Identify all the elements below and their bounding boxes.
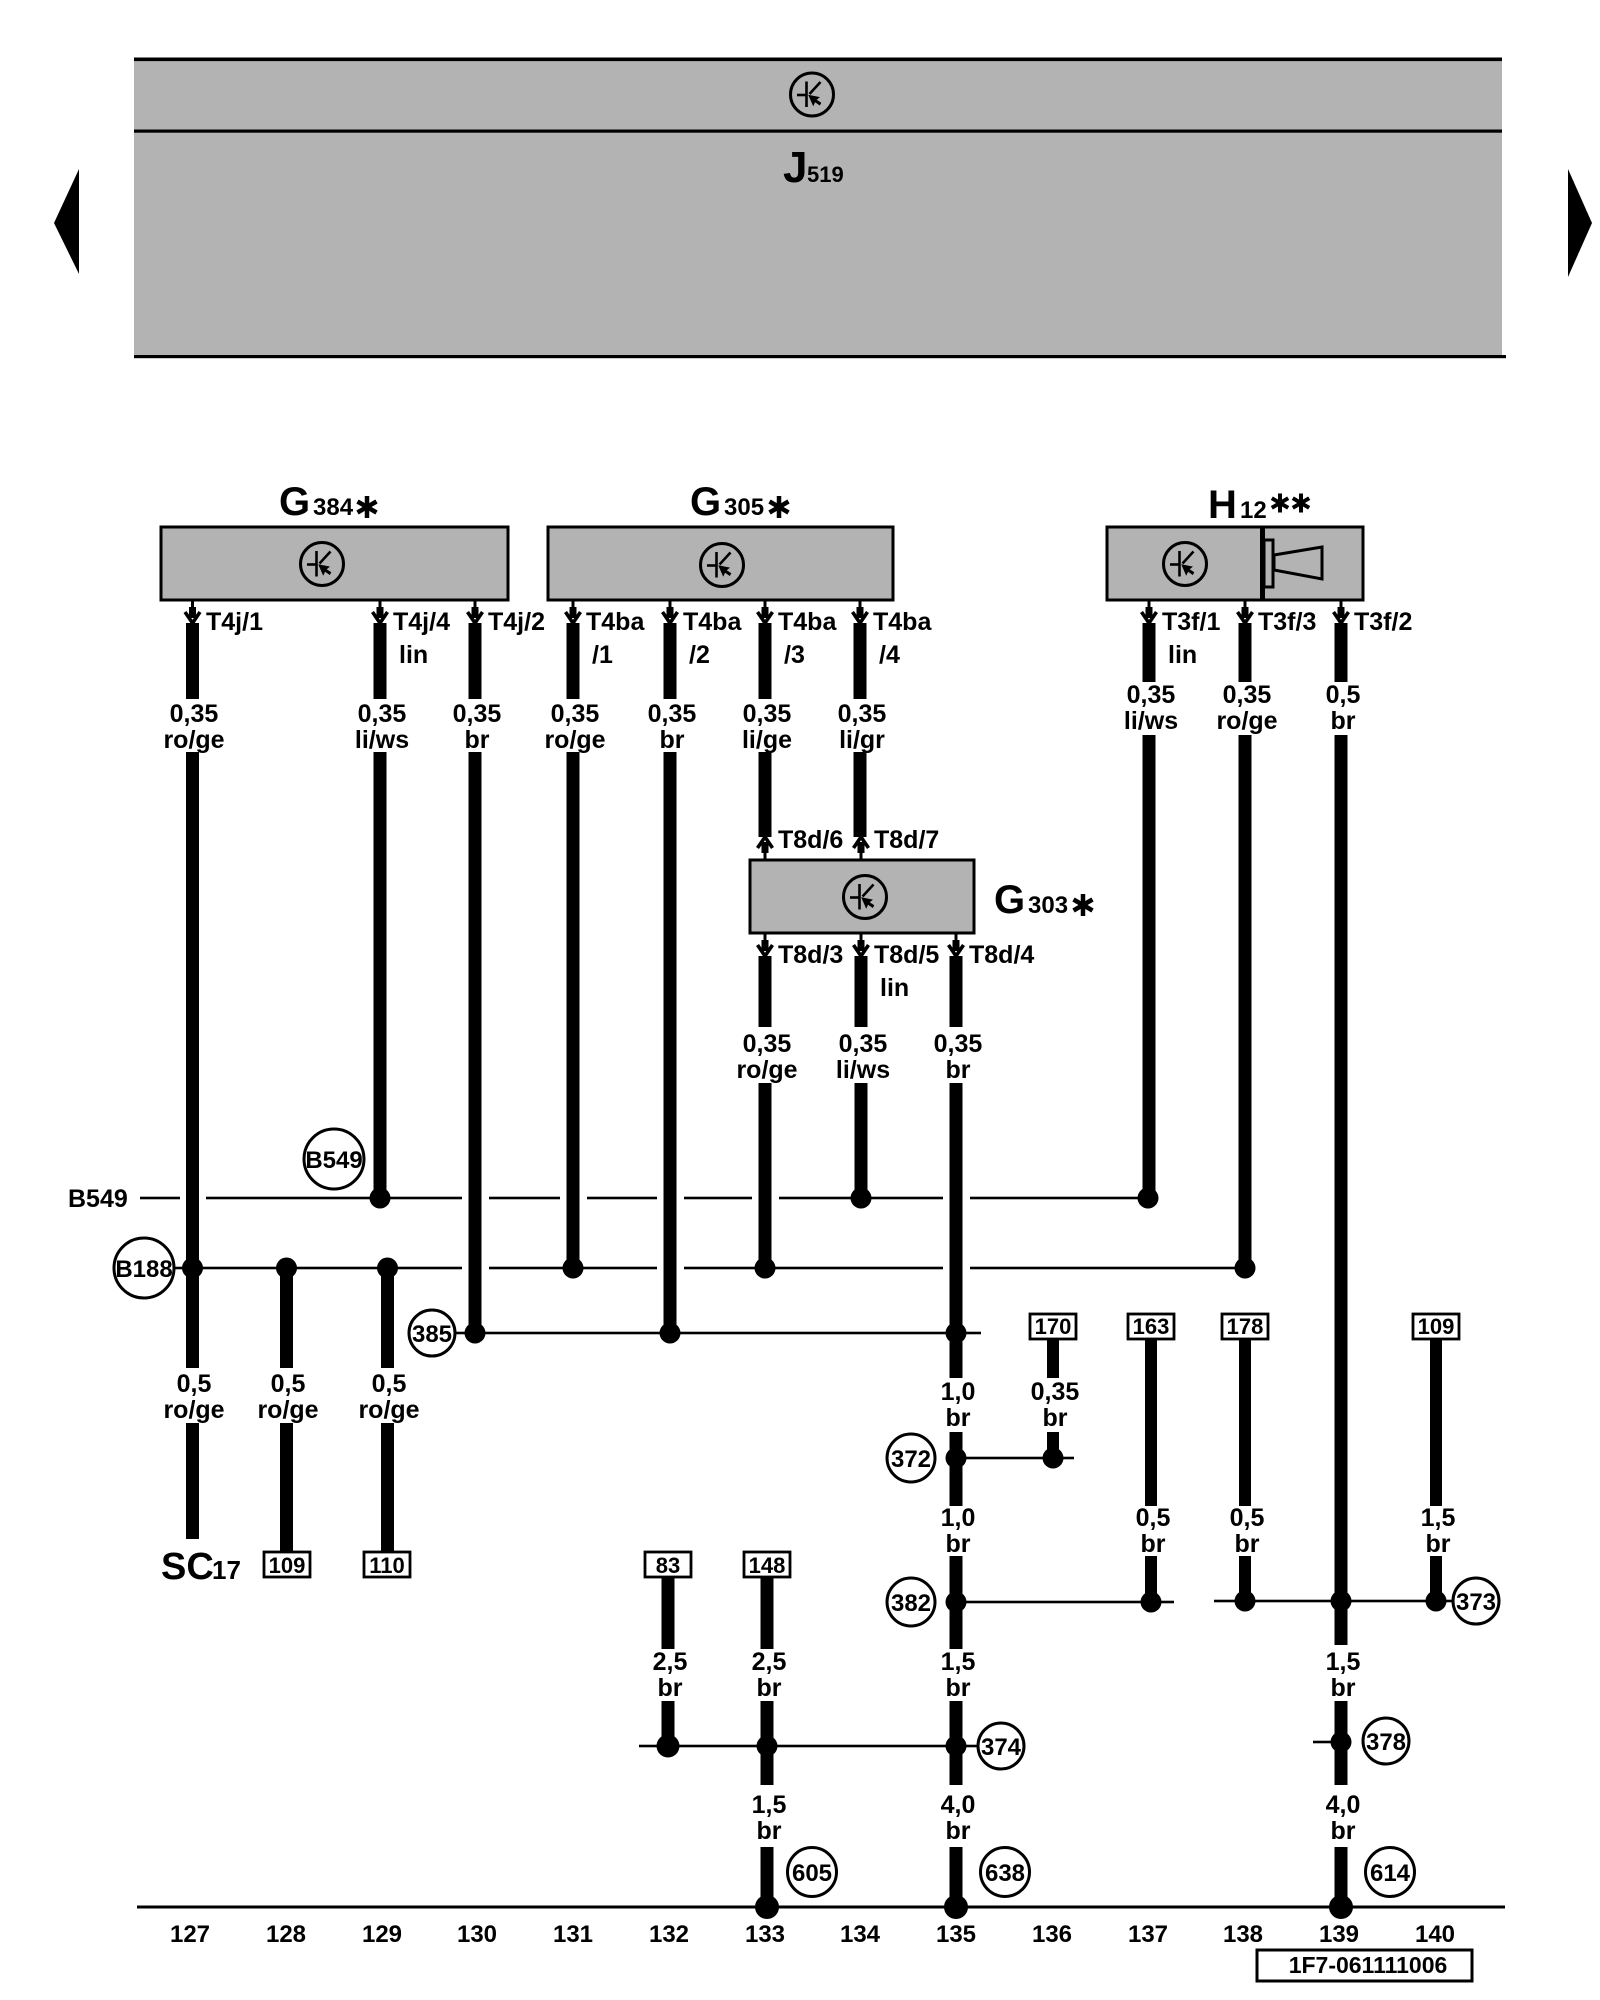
wire label 0,35 ro/ge @131 bbox=[544, 700, 605, 754]
pin G303 T8d/4 bbox=[949, 933, 1035, 969]
wire label 0,35 ro/ge @127 bbox=[163, 700, 224, 754]
terminal box 83 bbox=[645, 1552, 691, 1578]
junction B188/T3f3 bbox=[1235, 1258, 1256, 1279]
wire T4j/1 ro/ge (track 127) bbox=[186, 623, 199, 1539]
svg-text:519: 519 bbox=[807, 162, 844, 187]
svg-text:li/gr: li/gr bbox=[839, 726, 885, 754]
svg-text:br: br bbox=[465, 726, 490, 754]
svg-text:br: br bbox=[1331, 1674, 1356, 1702]
svg-text:2,5: 2,5 bbox=[653, 1648, 688, 1676]
wire label 0,5 br @163 bbox=[1136, 1504, 1171, 1558]
svg-text:br: br bbox=[1043, 1404, 1068, 1432]
junction B188/131 bbox=[563, 1258, 584, 1279]
svg-text:ro/ge: ro/ge bbox=[358, 1396, 419, 1424]
svg-text:0,5: 0,5 bbox=[1136, 1504, 1171, 1532]
svg-text:136: 136 bbox=[1032, 1921, 1072, 1948]
svg-text:4,0: 4,0 bbox=[1326, 1791, 1361, 1819]
svg-text:0,35: 0,35 bbox=[648, 700, 697, 728]
svg-text:T4ba: T4ba bbox=[778, 608, 837, 636]
terminal box 109 left bbox=[264, 1552, 310, 1578]
svg-text:373: 373 bbox=[1456, 1589, 1496, 1616]
svg-text:br: br bbox=[1331, 1817, 1356, 1845]
component G303 box bbox=[750, 860, 974, 933]
svg-text:0,35: 0,35 bbox=[743, 1030, 792, 1058]
pin G303 T8d/5 bbox=[854, 933, 940, 1002]
svg-text:ro/ge: ro/ge bbox=[257, 1396, 318, 1424]
svg-text:br: br bbox=[946, 1530, 971, 1558]
svg-text:0,35: 0,35 bbox=[838, 700, 887, 728]
junction 374/135 bbox=[946, 1736, 967, 1757]
junction 374/148 bbox=[757, 1736, 778, 1757]
junction 385/135 bbox=[946, 1323, 967, 1344]
svg-text:128: 128 bbox=[266, 1921, 306, 1948]
ground terminal SC17 bbox=[161, 1546, 241, 1588]
svg-text:140: 140 bbox=[1415, 1921, 1455, 1948]
terminal box 170 bbox=[1030, 1314, 1076, 1339]
node 372 bbox=[887, 1434, 935, 1482]
svg-text:T8d/4: T8d/4 bbox=[969, 941, 1034, 969]
svg-text:0,35: 0,35 bbox=[1127, 681, 1176, 709]
wire T8d/5 li/ws bbox=[855, 956, 868, 1198]
junction 382/163 bbox=[1141, 1592, 1162, 1613]
wire label 1,5 br @139 bbox=[1326, 1648, 1361, 1702]
svg-text:0,35: 0,35 bbox=[170, 700, 219, 728]
svg-text:638: 638 bbox=[985, 1860, 1025, 1887]
pin G303 T8d/7 bbox=[854, 826, 940, 860]
wire T8d/3 ro/ge bbox=[759, 956, 772, 1268]
node 382 bbox=[887, 1578, 935, 1626]
svg-text:lin: lin bbox=[880, 974, 909, 1002]
wire label 0,35 br @130 bbox=[453, 700, 502, 754]
svg-text:109: 109 bbox=[1418, 1314, 1455, 1339]
junction 372/135 bbox=[946, 1448, 967, 1469]
svg-text:127: 127 bbox=[170, 1921, 210, 1948]
svg-text:li/ws: li/ws bbox=[836, 1056, 890, 1084]
svg-text:ro/ge: ro/ge bbox=[544, 726, 605, 754]
pin H12 T3f/1 bbox=[1142, 600, 1221, 669]
svg-text:132: 132 bbox=[649, 1921, 689, 1948]
junction B549/T4j4 bbox=[370, 1188, 391, 1209]
junction 374/83 bbox=[657, 1735, 680, 1758]
node B188 bbox=[114, 1238, 174, 1298]
svg-text:0,5: 0,5 bbox=[177, 1370, 212, 1398]
svg-text:T4ba: T4ba bbox=[873, 608, 932, 636]
wire label 0,35 li/ge @133 bbox=[742, 700, 792, 754]
junction 385/132 bbox=[660, 1323, 681, 1344]
svg-text:li/ge: li/ge bbox=[742, 726, 792, 754]
wire connection 382 bbox=[950, 1601, 1174, 1604]
pin G305 T4ba/2 bbox=[663, 600, 743, 669]
svg-text:H: H bbox=[1208, 483, 1237, 527]
wire label 4,0 br @139 bbox=[1326, 1791, 1361, 1845]
label J519 bbox=[783, 143, 844, 192]
svg-text:T3f/1: T3f/1 bbox=[1162, 608, 1220, 636]
pin H12 T3f/3 bbox=[1238, 600, 1317, 636]
wire connection 374 bbox=[639, 1745, 978, 1748]
component G305 box bbox=[548, 527, 893, 600]
svg-text:0,35: 0,35 bbox=[1223, 681, 1272, 709]
wire label 1,0 br @135 lower bbox=[941, 1504, 976, 1558]
wire label 2,5 br @83 bbox=[653, 1648, 688, 1702]
node 378 bbox=[1363, 1718, 1409, 1764]
label G305* bbox=[690, 480, 789, 524]
wire T4ba/4 li/gr (track 134 top) bbox=[854, 623, 867, 837]
wire T4ba/2 br (track 132 top) bbox=[664, 623, 677, 1333]
wire terminal 83 br bbox=[662, 1577, 675, 1746]
svg-text:0,5: 0,5 bbox=[372, 1370, 407, 1398]
H12 K symbol bbox=[1164, 543, 1207, 586]
wire label 0,5 ro/ge @128 bbox=[257, 1370, 318, 1424]
wire connection 378 bbox=[1313, 1741, 1341, 1744]
svg-text:109: 109 bbox=[269, 1553, 306, 1578]
svg-text:0,5: 0,5 bbox=[271, 1370, 306, 1398]
svg-text:ro/ge: ro/ge bbox=[163, 1396, 224, 1424]
junction 373/140 bbox=[1426, 1591, 1447, 1612]
right continuation arrow bbox=[1568, 169, 1592, 277]
svg-text:br: br bbox=[1235, 1530, 1260, 1558]
track numbers 127-140 bbox=[170, 1921, 1455, 1948]
node B549 bbox=[304, 1129, 364, 1189]
G384 K symbol bbox=[301, 543, 344, 586]
svg-text:372: 372 bbox=[891, 1446, 931, 1473]
terminal box 109 right bbox=[1413, 1314, 1459, 1339]
wire connection 372 bbox=[950, 1457, 1074, 1460]
svg-text:T4ba: T4ba bbox=[586, 608, 645, 636]
svg-text:G: G bbox=[690, 480, 721, 524]
svg-text:T4j/2: T4j/2 bbox=[488, 608, 545, 636]
wire T3f/3 ro/ge (track 138) bbox=[1239, 623, 1252, 1268]
svg-text:1,5: 1,5 bbox=[1326, 1648, 1361, 1676]
node 605 bbox=[788, 1848, 837, 1897]
svg-text:1,0: 1,0 bbox=[941, 1378, 976, 1406]
terminal box 178 bbox=[1222, 1314, 1268, 1339]
control unit J519 box bbox=[134, 58, 1506, 359]
svg-text:ro/ge: ro/ge bbox=[736, 1056, 797, 1084]
node 374 bbox=[978, 1723, 1024, 1769]
svg-text:T3f/3: T3f/3 bbox=[1258, 608, 1316, 636]
svg-text:0,35: 0,35 bbox=[551, 700, 600, 728]
svg-text:0,35: 0,35 bbox=[743, 700, 792, 728]
svg-text:12: 12 bbox=[1240, 497, 1267, 524]
G305 K symbol bbox=[701, 544, 744, 587]
H12 speaker symbol bbox=[1264, 540, 1322, 587]
pin G384 T4j/2 bbox=[468, 600, 545, 636]
junction B188/129 bbox=[377, 1258, 398, 1279]
svg-text:0,35: 0,35 bbox=[934, 1030, 983, 1058]
svg-text:17: 17 bbox=[212, 1555, 241, 1585]
svg-text:/3: /3 bbox=[784, 641, 805, 669]
junction B188/128 bbox=[276, 1258, 297, 1279]
junction B549/T8d5 bbox=[851, 1188, 872, 1209]
svg-text:130: 130 bbox=[457, 1921, 497, 1948]
wire label 1,5 br @133 bbox=[752, 1791, 787, 1845]
svg-text:lin: lin bbox=[1168, 641, 1197, 669]
wire label 0,35 br @T8d4 bbox=[934, 1030, 983, 1084]
svg-text:br: br bbox=[1141, 1530, 1166, 1558]
wire B188 to terminal 109 (track 128) bbox=[280, 1268, 293, 1553]
wire label 2,5 br @148 bbox=[752, 1648, 787, 1702]
wire terminal 170 br bbox=[1047, 1338, 1059, 1458]
terminal box 148 bbox=[744, 1552, 790, 1578]
junction rail/139 bbox=[1329, 1895, 1353, 1919]
wire terminal 163 br bbox=[1145, 1338, 1157, 1602]
svg-text:J: J bbox=[783, 143, 807, 192]
svg-text:178: 178 bbox=[1227, 1314, 1264, 1339]
left continuation arrow bbox=[54, 169, 79, 274]
svg-text:B549: B549 bbox=[305, 1147, 362, 1174]
svg-text:129: 129 bbox=[362, 1921, 402, 1948]
svg-text:4,0: 4,0 bbox=[941, 1791, 976, 1819]
svg-text:T3f/2: T3f/2 bbox=[1354, 608, 1412, 636]
wire label 1,0 br @135 upper bbox=[941, 1378, 976, 1432]
terminal box 163 bbox=[1128, 1314, 1174, 1339]
junction 372/170 bbox=[1043, 1448, 1064, 1469]
svg-text:G: G bbox=[279, 480, 310, 524]
junction B188/T8d3 bbox=[755, 1258, 776, 1279]
wire label 0,5 ro/ge @129 bbox=[358, 1370, 419, 1424]
svg-text:1,5: 1,5 bbox=[752, 1791, 787, 1819]
wire T8d/4 br (track 135) bbox=[950, 956, 963, 1907]
wire label 0,35 br @170 bbox=[1031, 1378, 1080, 1432]
junction 382/135 bbox=[946, 1592, 967, 1613]
wire T4ba/3 li/ge (track 133 top) bbox=[759, 623, 772, 837]
wire label 0,35 ro/ge @138 bbox=[1216, 681, 1277, 735]
svg-text:br: br bbox=[946, 1817, 971, 1845]
svg-text:303: 303 bbox=[1028, 892, 1068, 919]
wire connection B188 bbox=[174, 1267, 1245, 1270]
svg-text:305: 305 bbox=[724, 494, 764, 521]
svg-text:SC: SC bbox=[161, 1546, 214, 1588]
svg-text:133: 133 bbox=[745, 1921, 785, 1948]
svg-text:br: br bbox=[660, 726, 685, 754]
wire label 0,35 li/ws @129 bbox=[355, 700, 409, 754]
terminal box 110 bbox=[364, 1552, 410, 1578]
wire label 0,35 li/gr @134 bbox=[838, 700, 887, 754]
svg-text:139: 139 bbox=[1319, 1921, 1359, 1948]
label H12** bbox=[1208, 483, 1309, 527]
svg-text:lin: lin bbox=[399, 641, 428, 669]
node 373 bbox=[1453, 1578, 1499, 1624]
svg-text:0,35: 0,35 bbox=[839, 1030, 888, 1058]
svg-text:135: 135 bbox=[936, 1921, 976, 1948]
svg-text:B549: B549 bbox=[68, 1185, 128, 1213]
junction B549/T3f1 bbox=[1138, 1188, 1159, 1209]
svg-text:385: 385 bbox=[412, 1321, 452, 1348]
svg-text:1,0: 1,0 bbox=[941, 1504, 976, 1532]
node 385 bbox=[409, 1310, 455, 1356]
junction rail/133 bbox=[755, 1895, 779, 1919]
svg-text:br: br bbox=[946, 1056, 971, 1084]
wire label 0,5 br @139 bbox=[1326, 681, 1361, 735]
earth rail bbox=[137, 1906, 1505, 1909]
svg-text:/4: /4 bbox=[879, 641, 900, 669]
wire T3f/1 li/ws (track 137) bbox=[1143, 623, 1156, 1198]
wire label 0,5 ro/ge @127 bbox=[163, 1370, 224, 1424]
svg-text:148: 148 bbox=[749, 1553, 786, 1578]
wire label 4,0 br @135 bbox=[941, 1791, 976, 1845]
pin G305 T4ba/1 bbox=[566, 600, 646, 669]
pin G384 T4j/1 bbox=[185, 600, 263, 636]
wire label 0,35 li/ws @137 bbox=[1124, 681, 1178, 735]
svg-text:G: G bbox=[994, 878, 1025, 922]
J519 K symbol bbox=[791, 73, 834, 116]
junction 373/178 bbox=[1235, 1591, 1256, 1612]
svg-text:li/ws: li/ws bbox=[355, 726, 409, 754]
svg-text:/1: /1 bbox=[592, 641, 613, 669]
svg-text:T4ba: T4ba bbox=[683, 608, 742, 636]
svg-text:110: 110 bbox=[369, 1553, 405, 1578]
pin G384 T4j/4 bbox=[373, 600, 451, 669]
svg-text:ro/ge: ro/ge bbox=[1216, 707, 1277, 735]
wire connection 373 bbox=[1214, 1600, 1453, 1603]
svg-text:T8d/7: T8d/7 bbox=[874, 826, 939, 854]
wire label 1,5 br @135 bbox=[941, 1648, 976, 1702]
component G384 box bbox=[161, 527, 508, 600]
wire T3f/2 br (track 139) bbox=[1335, 623, 1348, 1907]
svg-text:1,5: 1,5 bbox=[1421, 1504, 1456, 1532]
svg-text:134: 134 bbox=[840, 1921, 881, 1948]
svg-text:br: br bbox=[1331, 707, 1356, 735]
svg-text:138: 138 bbox=[1223, 1921, 1263, 1948]
svg-text:br: br bbox=[757, 1817, 782, 1845]
svg-text:614: 614 bbox=[1370, 1860, 1411, 1887]
svg-text:382: 382 bbox=[891, 1590, 931, 1617]
svg-text:T8d/3: T8d/3 bbox=[778, 941, 843, 969]
svg-text:384: 384 bbox=[313, 494, 354, 521]
svg-text:br: br bbox=[757, 1674, 782, 1702]
svg-text:1,5: 1,5 bbox=[941, 1648, 976, 1676]
wire T4ba/1 ro/ge (track 131) bbox=[567, 623, 580, 1268]
svg-text:ro/ge: ro/ge bbox=[163, 726, 224, 754]
junction rail/135 bbox=[944, 1895, 968, 1919]
svg-text:br: br bbox=[658, 1674, 683, 1702]
diagram number 1F7-061111006 bbox=[1257, 1950, 1472, 1981]
svg-text:0,5: 0,5 bbox=[1326, 681, 1361, 709]
svg-text:378: 378 bbox=[1366, 1729, 1406, 1756]
svg-text:br: br bbox=[1426, 1530, 1451, 1558]
pin G305 T4ba/3 bbox=[758, 600, 838, 669]
svg-text:131: 131 bbox=[553, 1921, 593, 1948]
node 638 bbox=[981, 1848, 1030, 1897]
junction B188/127 bbox=[182, 1258, 203, 1279]
wire terminal 178 br bbox=[1239, 1338, 1251, 1601]
wire T4j/4 li/ws (track 129 top) bbox=[374, 623, 387, 1198]
svg-text:137: 137 bbox=[1128, 1921, 1168, 1948]
svg-text:83: 83 bbox=[656, 1553, 680, 1578]
svg-text:605: 605 bbox=[792, 1860, 832, 1887]
component H12 box bbox=[1107, 527, 1363, 600]
wire terminal 109 br (track 140) bbox=[1430, 1338, 1442, 1601]
svg-text:1F7-061111006: 1F7-061111006 bbox=[1289, 1952, 1448, 1978]
svg-text:163: 163 bbox=[1133, 1314, 1170, 1339]
svg-text:374: 374 bbox=[981, 1734, 1022, 1761]
wire connection B549 bbox=[140, 1197, 1148, 1200]
svg-text:T4j/1: T4j/1 bbox=[206, 608, 263, 636]
svg-text:T4j/4: T4j/4 bbox=[393, 608, 450, 636]
svg-text:2,5: 2,5 bbox=[752, 1648, 787, 1676]
wire B188 to terminal 110 (track 129) bbox=[381, 1268, 394, 1553]
G303 K symbol bbox=[844, 876, 887, 919]
svg-text:T8d/6: T8d/6 bbox=[778, 826, 843, 854]
svg-text:170: 170 bbox=[1035, 1314, 1072, 1339]
junction 385/130 bbox=[465, 1323, 486, 1344]
label G303* bbox=[994, 878, 1093, 922]
pin G305 T4ba/4 bbox=[853, 600, 933, 669]
svg-text:0,35: 0,35 bbox=[358, 700, 407, 728]
label G384* bbox=[279, 480, 377, 524]
wire label 0,5 br @178 bbox=[1230, 1504, 1265, 1558]
junction 378/139 bbox=[1331, 1732, 1352, 1753]
svg-text:0,5: 0,5 bbox=[1230, 1504, 1265, 1532]
node 614 bbox=[1366, 1848, 1415, 1897]
svg-text:0,35: 0,35 bbox=[1031, 1378, 1080, 1406]
wire label 0,35 br @132 bbox=[648, 700, 697, 754]
junction 373/139 bbox=[1331, 1591, 1352, 1612]
wire label 0,35 li/ws @T8d5 bbox=[836, 1030, 890, 1084]
pin G303 T8d/3 bbox=[758, 933, 844, 969]
wire connection 385 bbox=[456, 1332, 981, 1335]
pin G303 T8d/6 bbox=[758, 826, 844, 860]
svg-text:0,35: 0,35 bbox=[453, 700, 502, 728]
svg-text:li/ws: li/ws bbox=[1124, 707, 1178, 735]
wire label 0,35 ro/ge @T8d3 bbox=[736, 1030, 797, 1084]
pin H12 T3f/2 bbox=[1334, 600, 1413, 636]
wire label 1,5 br @140 bbox=[1421, 1504, 1456, 1558]
svg-text:br: br bbox=[946, 1674, 971, 1702]
svg-text:br: br bbox=[946, 1404, 971, 1432]
wire terminal 148 br (track 133) bbox=[761, 1577, 774, 1907]
svg-text:/2: /2 bbox=[689, 641, 710, 669]
svg-text:B188: B188 bbox=[115, 1256, 172, 1283]
wire T4j/2 br (track 130) bbox=[469, 623, 482, 1333]
svg-text:T8d/5: T8d/5 bbox=[874, 941, 939, 969]
